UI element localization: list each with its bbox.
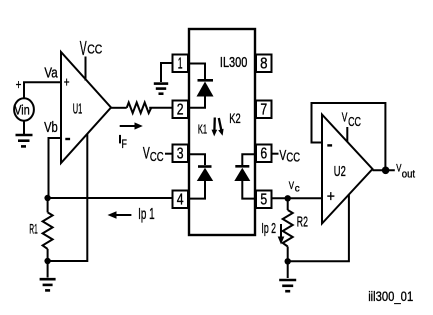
svg-text:CC: CC — [87, 43, 102, 57]
svg-text:5: 5 — [260, 192, 267, 209]
svg-text:Vb: Vb — [44, 119, 58, 136]
svg-text:U1: U1 — [73, 102, 83, 118]
svg-text:V: V — [289, 180, 295, 192]
svg-text:V: V — [143, 145, 150, 163]
svg-text:F: F — [122, 137, 127, 151]
svg-text:IL300: IL300 — [220, 55, 248, 71]
svg-text:Ip 2: Ip 2 — [261, 220, 276, 237]
svg-text:V: V — [342, 110, 348, 125]
svg-text:out: out — [402, 168, 415, 180]
svg-text:CC: CC — [150, 150, 164, 164]
svg-text:Va: Va — [44, 65, 58, 82]
svg-text:1: 1 — [178, 56, 183, 73]
svg-text:+: + — [327, 188, 335, 205]
svg-text:4: 4 — [177, 192, 184, 209]
svg-text:6: 6 — [260, 146, 267, 163]
svg-text:8: 8 — [260, 56, 267, 73]
svg-text:+: + — [64, 75, 70, 90]
svg-text:CC: CC — [348, 115, 361, 129]
svg-text:K1: K1 — [198, 123, 207, 137]
svg-text:CC: CC — [286, 151, 300, 165]
svg-text:iil300_01: iil300_01 — [368, 289, 413, 304]
svg-text:V: V — [80, 37, 87, 60]
svg-text:U2: U2 — [334, 163, 346, 180]
svg-text:+: + — [16, 77, 22, 92]
svg-text:R2: R2 — [297, 215, 308, 231]
svg-text:7: 7 — [260, 102, 267, 119]
svg-text:R1: R1 — [29, 221, 37, 237]
svg-text:c: c — [295, 183, 300, 195]
svg-text:2: 2 — [177, 102, 184, 119]
svg-text:K2: K2 — [229, 110, 241, 126]
svg-text:3: 3 — [177, 146, 184, 163]
svg-text:Vin: Vin — [14, 103, 29, 118]
svg-text:Ip 1: Ip 1 — [138, 206, 155, 223]
